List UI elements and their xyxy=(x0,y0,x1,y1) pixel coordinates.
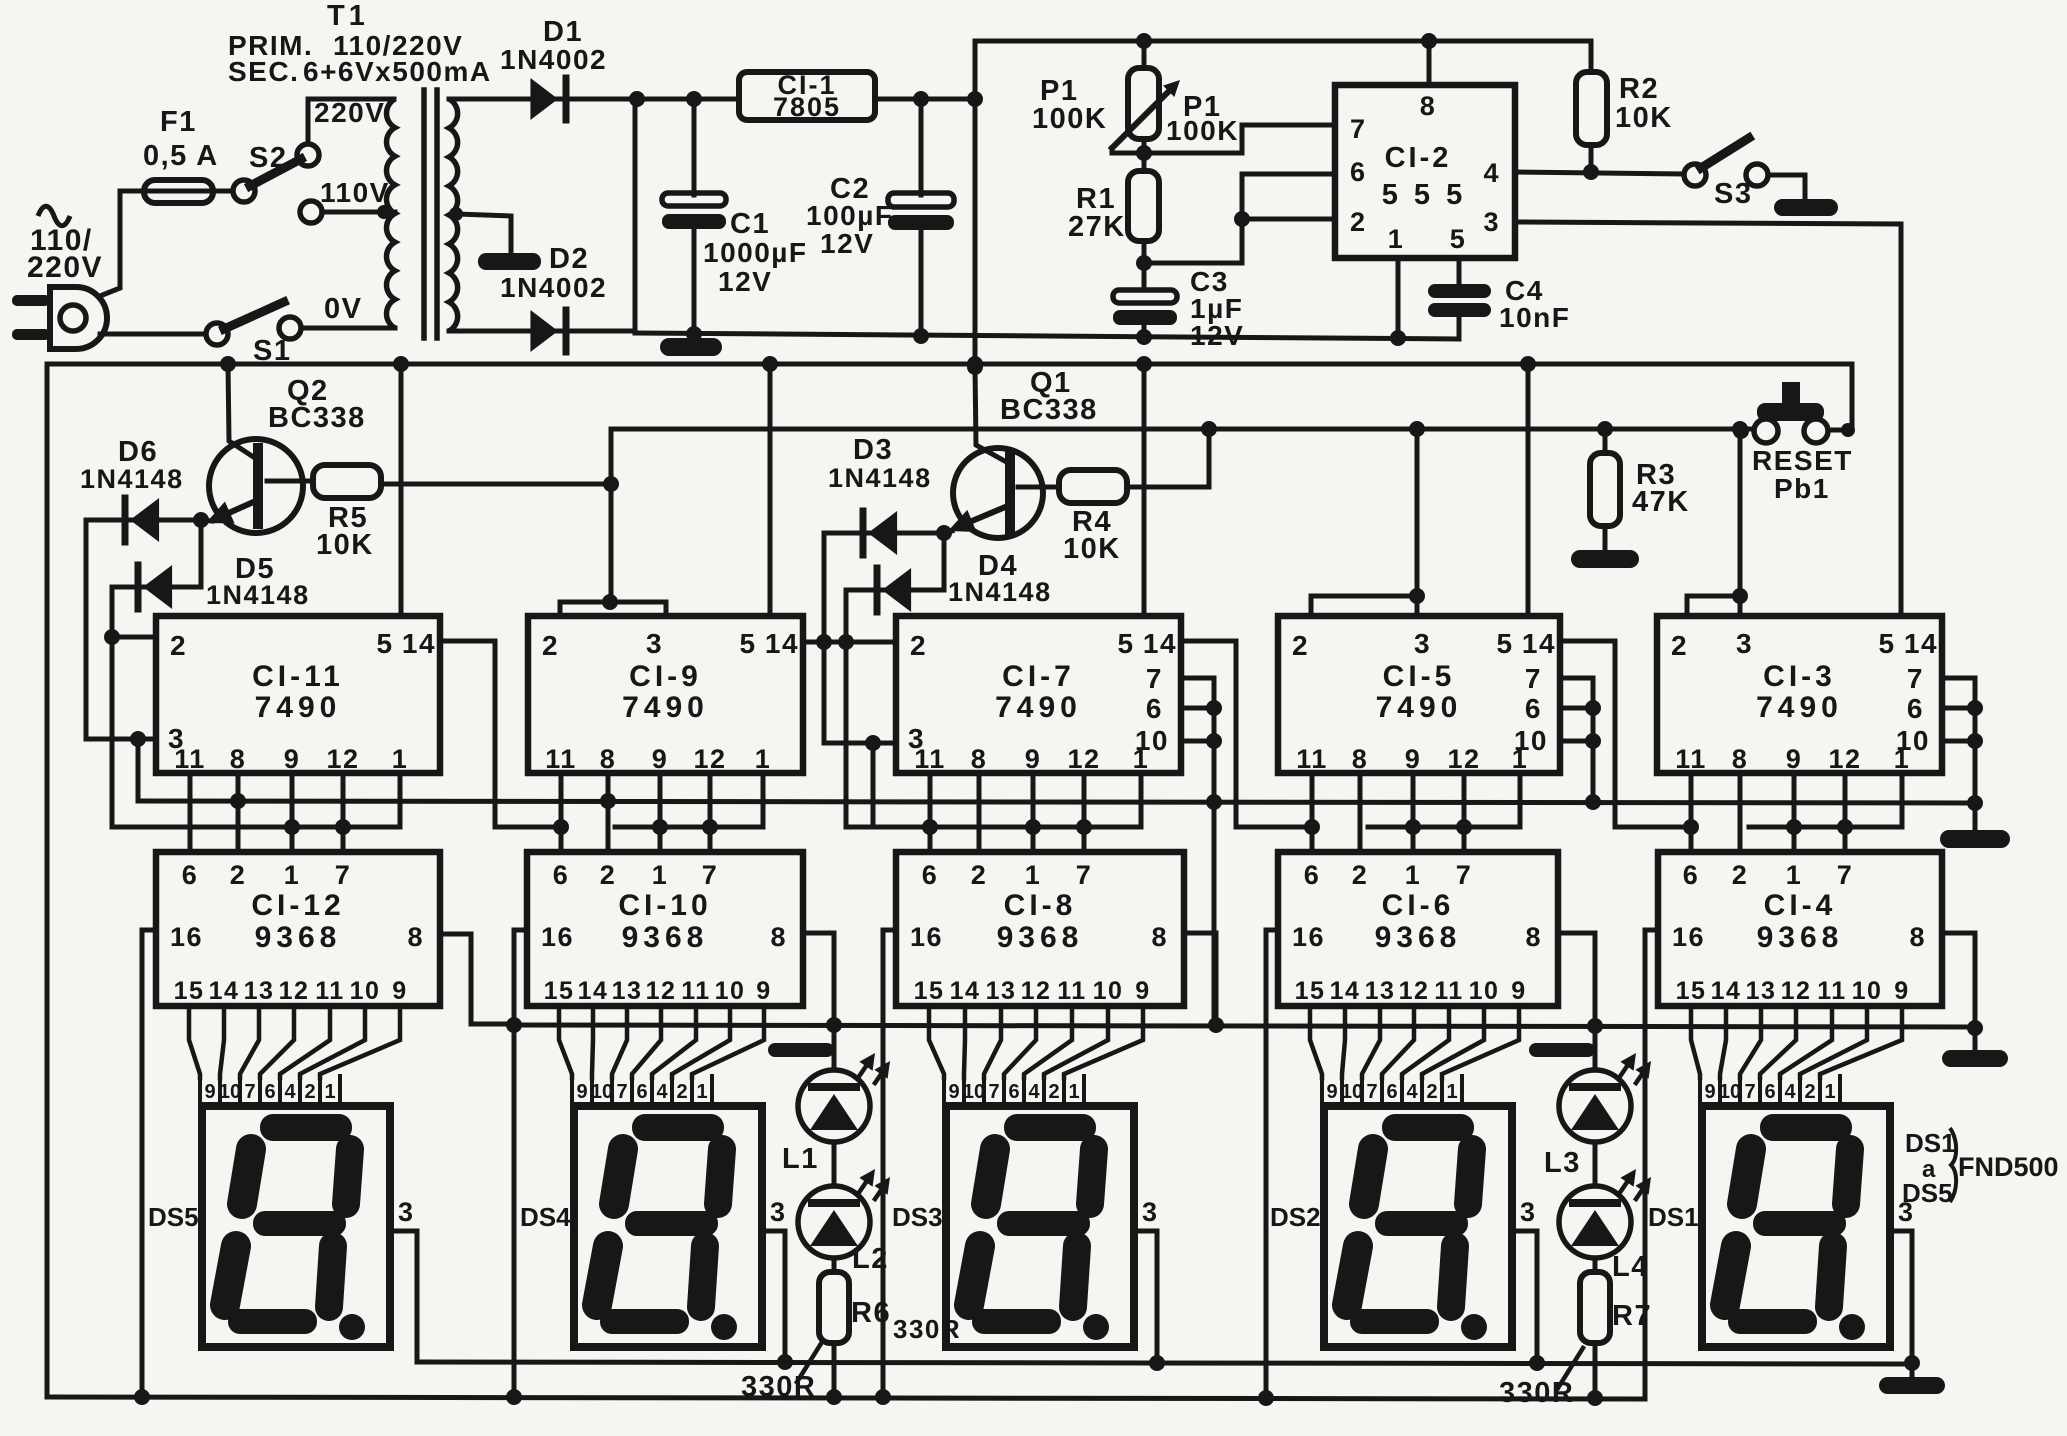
svg-text:L1: L1 xyxy=(782,1143,819,1175)
svg-text:11: 11 xyxy=(1296,744,1328,774)
svg-text:6: 6 xyxy=(922,860,939,890)
svg-text:5: 5 xyxy=(1878,628,1895,659)
svg-text:3: 3 xyxy=(398,1197,415,1227)
svg-text:1N4148: 1N4148 xyxy=(948,577,1052,607)
svg-text:CI-6: CI-6 xyxy=(1382,889,1455,922)
svg-text:8: 8 xyxy=(770,922,787,952)
svg-text:7805: 7805 xyxy=(773,92,841,122)
svg-text:CI-9: CI-9 xyxy=(629,660,702,693)
svg-text:4: 4 xyxy=(1483,158,1500,188)
svg-text:1N4148: 1N4148 xyxy=(206,580,310,610)
svg-text:CI-8: CI-8 xyxy=(1004,889,1077,922)
svg-text:330R: 330R xyxy=(893,1314,961,1344)
svg-text:1N4002: 1N4002 xyxy=(500,44,607,75)
svg-text:8: 8 xyxy=(1525,922,1542,952)
svg-text:2: 2 xyxy=(910,630,927,661)
svg-text:11: 11 xyxy=(1057,977,1086,1005)
svg-text:11: 11 xyxy=(545,744,577,774)
svg-text:15: 15 xyxy=(1676,977,1707,1005)
svg-text:9: 9 xyxy=(1405,744,1422,774)
svg-text:SEC.: SEC. xyxy=(228,56,299,87)
svg-text:6: 6 xyxy=(1907,693,1924,724)
svg-text:12: 12 xyxy=(646,977,677,1005)
svg-text:10: 10 xyxy=(1093,977,1124,1005)
svg-text:1: 1 xyxy=(755,744,772,774)
svg-text:6: 6 xyxy=(1386,1081,1397,1103)
svg-text:RESET: RESET xyxy=(1752,445,1853,476)
svg-text:7: 7 xyxy=(335,860,352,890)
svg-text:11: 11 xyxy=(1817,977,1846,1005)
svg-text:BC338: BC338 xyxy=(268,402,366,434)
svg-text:2: 2 xyxy=(1732,860,1749,890)
svg-text:100K: 100K xyxy=(1166,115,1239,146)
svg-text:9: 9 xyxy=(392,977,407,1005)
svg-text:9368: 9368 xyxy=(1375,921,1462,954)
svg-text:15: 15 xyxy=(174,977,205,1005)
svg-text:9: 9 xyxy=(756,977,771,1005)
svg-text:2: 2 xyxy=(304,1081,315,1103)
svg-text:DS5: DS5 xyxy=(148,1202,199,1232)
svg-text:8: 8 xyxy=(407,922,424,952)
svg-text:8: 8 xyxy=(600,744,617,774)
svg-text:14: 14 xyxy=(950,977,981,1005)
svg-text:10: 10 xyxy=(1852,977,1883,1005)
svg-text:6: 6 xyxy=(1350,157,1367,187)
svg-text:DS3: DS3 xyxy=(892,1202,943,1232)
svg-text:16: 16 xyxy=(541,922,574,952)
svg-text:10: 10 xyxy=(715,977,746,1005)
svg-text:10: 10 xyxy=(591,1081,613,1103)
svg-text:6: 6 xyxy=(1304,860,1321,890)
svg-text:14: 14 xyxy=(765,628,799,659)
svg-text:1: 1 xyxy=(392,744,409,774)
svg-text:6: 6 xyxy=(1525,693,1542,724)
svg-text:12: 12 xyxy=(279,977,310,1005)
svg-text:L2: L2 xyxy=(852,1243,889,1275)
svg-text:F1: F1 xyxy=(160,106,197,138)
svg-text:7490: 7490 xyxy=(995,691,1082,724)
svg-text:1: 1 xyxy=(284,860,301,890)
svg-text:CI-12: CI-12 xyxy=(251,889,344,922)
svg-text:9368: 9368 xyxy=(1757,921,1844,954)
svg-text:1: 1 xyxy=(652,860,669,890)
svg-text:6: 6 xyxy=(636,1081,647,1103)
svg-text:11: 11 xyxy=(315,977,344,1005)
svg-text:6+6Vx500mA: 6+6Vx500mA xyxy=(303,56,492,87)
svg-text:8: 8 xyxy=(971,744,988,774)
svg-text:L4: L4 xyxy=(1612,1251,1649,1283)
svg-text:220V: 220V xyxy=(314,97,385,128)
svg-text:6: 6 xyxy=(1764,1081,1775,1103)
svg-text:3: 3 xyxy=(1520,1197,1537,1227)
svg-text:27K: 27K xyxy=(1068,211,1126,243)
svg-text:4: 4 xyxy=(1028,1081,1040,1103)
svg-text:3: 3 xyxy=(1483,207,1500,237)
svg-text:16: 16 xyxy=(170,922,203,952)
svg-text:9: 9 xyxy=(1704,1081,1715,1103)
svg-text:CI-11: CI-11 xyxy=(252,660,344,693)
svg-text:4: 4 xyxy=(656,1081,668,1103)
svg-text:DS5: DS5 xyxy=(1902,1178,1953,1208)
svg-text:5: 5 xyxy=(1496,628,1513,659)
svg-text:1: 1 xyxy=(1025,860,1042,890)
svg-text:Pb1: Pb1 xyxy=(1774,473,1830,504)
svg-text:100K: 100K xyxy=(1032,103,1107,135)
svg-text:6: 6 xyxy=(1146,693,1163,724)
svg-text:R7: R7 xyxy=(1612,1300,1652,1332)
svg-text:16: 16 xyxy=(1292,922,1325,952)
svg-text:5: 5 xyxy=(376,628,393,659)
svg-text:1: 1 xyxy=(1068,1081,1079,1103)
svg-text:9: 9 xyxy=(576,1081,587,1103)
svg-text:2: 2 xyxy=(1804,1081,1815,1103)
svg-text:10: 10 xyxy=(963,1081,985,1103)
svg-text:2: 2 xyxy=(676,1081,687,1103)
svg-text:13: 13 xyxy=(612,977,643,1005)
svg-text:6: 6 xyxy=(182,860,199,890)
svg-text:47K: 47K xyxy=(1632,486,1690,518)
svg-text:7: 7 xyxy=(1456,860,1473,890)
svg-text:CI-10: CI-10 xyxy=(618,889,711,922)
svg-text:100µF: 100µF xyxy=(806,200,893,231)
svg-text:2: 2 xyxy=(1671,630,1688,661)
svg-text:6: 6 xyxy=(1008,1081,1019,1103)
svg-text:11: 11 xyxy=(174,744,206,774)
svg-text:5 5 5: 5 5 5 xyxy=(1382,179,1467,211)
svg-text:2: 2 xyxy=(1350,207,1367,237)
svg-text:7490: 7490 xyxy=(1376,691,1463,724)
svg-text:16: 16 xyxy=(1672,922,1705,952)
svg-text:BC338: BC338 xyxy=(1000,394,1098,426)
svg-text:14: 14 xyxy=(1711,977,1742,1005)
svg-text:7490: 7490 xyxy=(255,691,342,724)
svg-text:7: 7 xyxy=(1366,1081,1377,1103)
svg-text:9368: 9368 xyxy=(622,921,709,954)
svg-text:15: 15 xyxy=(1295,977,1326,1005)
svg-text:D2: D2 xyxy=(549,243,589,275)
svg-text:12: 12 xyxy=(326,744,359,774)
svg-text:R6: R6 xyxy=(851,1297,891,1329)
svg-text:16: 16 xyxy=(910,922,943,952)
svg-text:4: 4 xyxy=(284,1081,296,1103)
svg-text:DS2: DS2 xyxy=(1270,1202,1321,1232)
svg-text:9: 9 xyxy=(284,744,301,774)
svg-text:10: 10 xyxy=(1341,1081,1363,1103)
svg-text:DS4: DS4 xyxy=(520,1202,571,1232)
svg-text:9: 9 xyxy=(1326,1081,1337,1103)
svg-text:9: 9 xyxy=(1135,977,1150,1005)
svg-text:12V: 12V xyxy=(718,266,772,297)
svg-text:10: 10 xyxy=(350,977,381,1005)
svg-text:3: 3 xyxy=(646,628,663,659)
svg-text:7490: 7490 xyxy=(1756,691,1843,724)
svg-text:6: 6 xyxy=(264,1081,275,1103)
svg-text:7: 7 xyxy=(1837,860,1854,890)
svg-text:12V: 12V xyxy=(820,228,874,259)
svg-text:DS1: DS1 xyxy=(1648,1202,1699,1232)
svg-text:10: 10 xyxy=(219,1081,241,1103)
svg-text:7: 7 xyxy=(1076,860,1093,890)
svg-text:CI-7: CI-7 xyxy=(1002,660,1075,693)
svg-text:D3: D3 xyxy=(853,434,893,466)
svg-text:1000µF: 1000µF xyxy=(703,237,808,268)
svg-text:10K: 10K xyxy=(316,529,374,561)
svg-text:1: 1 xyxy=(1786,860,1803,890)
svg-text:7: 7 xyxy=(1744,1081,1755,1103)
svg-text:L3: L3 xyxy=(1544,1147,1581,1179)
svg-text:7: 7 xyxy=(1525,663,1542,694)
svg-text:15: 15 xyxy=(914,977,945,1005)
svg-text:13: 13 xyxy=(1746,977,1777,1005)
svg-text:7: 7 xyxy=(1146,663,1163,694)
svg-text:3: 3 xyxy=(1142,1197,1159,1227)
svg-text:S2: S2 xyxy=(249,142,287,174)
svg-text:12: 12 xyxy=(1021,977,1052,1005)
svg-text:9: 9 xyxy=(1894,977,1909,1005)
svg-text:15: 15 xyxy=(544,977,575,1005)
svg-text:12: 12 xyxy=(1067,744,1100,774)
svg-text:8: 8 xyxy=(1420,91,1437,121)
svg-text:7: 7 xyxy=(616,1081,627,1103)
svg-text:7: 7 xyxy=(1350,114,1367,144)
svg-text:3: 3 xyxy=(1736,628,1753,659)
svg-text:10: 10 xyxy=(1719,1081,1741,1103)
svg-text:10K: 10K xyxy=(1615,102,1673,134)
svg-text:2: 2 xyxy=(971,860,988,890)
svg-text:C1: C1 xyxy=(730,208,770,240)
svg-text:2: 2 xyxy=(1292,630,1309,661)
svg-text:12: 12 xyxy=(1447,744,1480,774)
svg-text:13: 13 xyxy=(1365,977,1396,1005)
svg-text:14: 14 xyxy=(1330,977,1361,1005)
svg-text:14: 14 xyxy=(1143,628,1177,659)
svg-text:14: 14 xyxy=(578,977,609,1005)
svg-text:1: 1 xyxy=(1388,224,1405,254)
svg-text:1: 1 xyxy=(1824,1081,1835,1103)
svg-text:220V: 220V xyxy=(27,251,103,284)
svg-text:330R: 330R xyxy=(741,1371,816,1403)
svg-text:2: 2 xyxy=(170,630,187,661)
svg-text:1N4148: 1N4148 xyxy=(80,464,184,494)
svg-text:9: 9 xyxy=(948,1081,959,1103)
svg-text:10: 10 xyxy=(1469,977,1500,1005)
svg-text:9: 9 xyxy=(652,744,669,774)
svg-text:2: 2 xyxy=(230,860,247,890)
svg-text:4: 4 xyxy=(1406,1081,1418,1103)
svg-text:9: 9 xyxy=(1025,744,1042,774)
svg-text:13: 13 xyxy=(986,977,1017,1005)
svg-text:FND500: FND500 xyxy=(1958,1152,2059,1182)
svg-text:2: 2 xyxy=(600,860,617,890)
svg-text:9368: 9368 xyxy=(255,921,342,954)
svg-text:CI-3: CI-3 xyxy=(1763,660,1836,693)
svg-text:6: 6 xyxy=(1683,860,1700,890)
svg-text:9: 9 xyxy=(204,1081,215,1103)
svg-text:11: 11 xyxy=(681,977,710,1005)
svg-text:0,5 A: 0,5 A xyxy=(143,140,219,172)
svg-text:14: 14 xyxy=(402,628,436,659)
svg-text:CI-2: CI-2 xyxy=(1385,142,1452,174)
svg-text:14: 14 xyxy=(209,977,240,1005)
svg-text:12: 12 xyxy=(693,744,726,774)
svg-text:10: 10 xyxy=(1896,725,1930,756)
svg-text:3: 3 xyxy=(770,1197,787,1227)
svg-text:12: 12 xyxy=(1399,977,1430,1005)
svg-text:10K: 10K xyxy=(1063,533,1121,565)
svg-text:5: 5 xyxy=(739,628,756,659)
svg-text:10: 10 xyxy=(1135,725,1169,756)
svg-text:7: 7 xyxy=(988,1081,999,1103)
svg-text:10: 10 xyxy=(1514,725,1548,756)
svg-text:CI-5: CI-5 xyxy=(1383,660,1456,693)
svg-text:R2: R2 xyxy=(1619,73,1659,105)
svg-text:2: 2 xyxy=(1352,860,1369,890)
svg-text:10nF: 10nF xyxy=(1499,302,1570,333)
svg-text:2: 2 xyxy=(1048,1081,1059,1103)
svg-text:S3: S3 xyxy=(1714,178,1752,210)
svg-text:8: 8 xyxy=(1909,922,1926,952)
svg-text:8: 8 xyxy=(230,744,247,774)
svg-text:11: 11 xyxy=(914,744,946,774)
svg-text:1N4148: 1N4148 xyxy=(828,463,932,493)
svg-text:8: 8 xyxy=(1732,744,1749,774)
svg-text:3: 3 xyxy=(1414,628,1431,659)
svg-text:1: 1 xyxy=(324,1081,335,1103)
svg-text:5: 5 xyxy=(1117,628,1134,659)
svg-text:14: 14 xyxy=(1904,628,1938,659)
svg-text:5: 5 xyxy=(1450,224,1467,254)
svg-text:9: 9 xyxy=(1511,977,1526,1005)
svg-text:1: 1 xyxy=(696,1081,707,1103)
svg-text:7490: 7490 xyxy=(622,691,709,724)
svg-text:1: 1 xyxy=(1405,860,1422,890)
svg-text:12V: 12V xyxy=(1190,320,1244,351)
svg-text:12: 12 xyxy=(1781,977,1812,1005)
svg-text:7: 7 xyxy=(1907,663,1924,694)
svg-text:9: 9 xyxy=(1786,744,1803,774)
svg-text:1N4002: 1N4002 xyxy=(500,272,607,303)
svg-text:8: 8 xyxy=(1352,744,1369,774)
svg-text:6: 6 xyxy=(553,860,570,890)
svg-text:9368: 9368 xyxy=(997,921,1084,954)
svg-text:CI-4: CI-4 xyxy=(1764,889,1837,922)
svg-text:2: 2 xyxy=(542,630,559,661)
svg-text:11: 11 xyxy=(1675,744,1707,774)
svg-text:2: 2 xyxy=(1426,1081,1437,1103)
svg-text:1: 1 xyxy=(1446,1081,1457,1103)
svg-text:14: 14 xyxy=(1522,628,1556,659)
svg-text:T1: T1 xyxy=(327,0,369,32)
svg-text:7: 7 xyxy=(702,860,719,890)
svg-text:13: 13 xyxy=(244,977,275,1005)
svg-text:8: 8 xyxy=(1151,922,1168,952)
svg-text:4: 4 xyxy=(1784,1081,1796,1103)
svg-text:7: 7 xyxy=(244,1081,255,1103)
svg-text:11: 11 xyxy=(1434,977,1463,1005)
svg-text:DS1: DS1 xyxy=(1905,1128,1956,1158)
svg-text:110V: 110V xyxy=(320,177,390,208)
svg-text:12: 12 xyxy=(1828,744,1861,774)
svg-text:0V: 0V xyxy=(324,293,362,325)
